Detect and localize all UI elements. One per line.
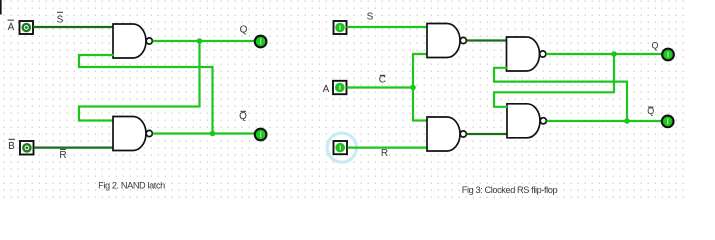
cropped element at top-left edge <box>0 0 2 15</box>
label Q-bar (Fig 3) <box>647 106 654 116</box>
junction node on Q-bar wire <box>210 131 216 137</box>
input switch R (value 1) <box>334 141 348 154</box>
wire feedback Q-bar to U1 input <box>79 55 213 134</box>
junction node on Q-bar wire (Fig 3) <box>624 118 630 124</box>
label Q-bar (Fig 2) <box>239 111 247 122</box>
NAND gate U4 (bottom-left, Fig 3) <box>427 117 466 151</box>
wire C branch down to U4 <box>413 88 428 121</box>
wire S (logic 1) <box>347 26 428 28</box>
output indicator Q-bar (lit, 1) <box>255 129 267 141</box>
svg-text:A: A <box>8 22 15 33</box>
svg-text:S: S <box>367 12 374 23</box>
wire U1 output to Q (logic 1) <box>153 40 254 42</box>
wire C (logic 1) <box>347 86 414 88</box>
output indicator Q (lit, Fig 3) <box>662 49 674 61</box>
input switch S (value 1, Fig 3) <box>334 21 347 34</box>
wire feedback Q to U2 input <box>79 41 200 121</box>
wire U3 out to U5 (logic 0) <box>467 39 507 41</box>
NAND gate U3 (top-left, Fig 3) <box>427 24 466 58</box>
svg-text:B: B <box>8 141 15 152</box>
NAND gate U1 (top, Fig 2) <box>113 24 152 58</box>
output indicator Q-bar (lit, Fig 3) <box>662 116 674 128</box>
wire feedback Q to U6 input <box>494 54 614 107</box>
input switch B (value 0) <box>20 141 34 155</box>
svg-text:Q: Q <box>240 25 248 36</box>
NAND gate U5 (top-right, Fig 3) <box>507 37 546 71</box>
label A-bar (input A, Fig 2) <box>8 20 15 33</box>
junction node on C wire <box>410 85 416 91</box>
NAND gate U2 (bottom, Fig 2) <box>113 117 152 151</box>
junction node on Q wire (Fig 3) <box>611 51 617 57</box>
junction node on Q wire <box>197 38 203 44</box>
svg-text:Fig 3: Clocked RS flip-flop: Fig 3: Clocked RS flip-flop <box>462 185 558 195</box>
wire S-bar (logic 0) <box>33 26 114 28</box>
net C-bar label <box>379 75 386 86</box>
wire R-bar (logic 0) <box>34 147 114 149</box>
wire feedback Q-bar to U5 input <box>494 68 627 121</box>
wire R (logic 1) <box>348 147 428 149</box>
wire U6 output to Q-bar (logic 1) <box>547 120 662 122</box>
svg-text:Q: Q <box>651 41 658 51</box>
wire U5 output to Q (logic 1) <box>546 53 662 55</box>
selection halo around R switch <box>327 133 356 162</box>
input switch A/C (value 1) <box>333 81 347 94</box>
svg-text:R: R <box>381 148 388 159</box>
svg-text:Fig 2. NAND latch: Fig 2. NAND latch <box>98 181 165 191</box>
svg-text:R: R <box>59 150 66 161</box>
output indicator Q (lit, 1) <box>255 36 267 48</box>
svg-text:Q: Q <box>239 111 247 122</box>
net R-bar label <box>59 149 66 161</box>
label B-bar (input B, Fig 2) <box>8 139 15 152</box>
input switch A (value 0) <box>20 21 34 34</box>
net S-bar label <box>57 12 64 26</box>
NAND gate U6 (bottom-right, Fig 3) <box>507 104 546 138</box>
svg-text:S: S <box>57 15 64 26</box>
wire C branch up to U3 <box>413 54 428 88</box>
svg-text:A: A <box>323 84 330 95</box>
wire U2 output to Q-bar (logic 1) <box>153 132 254 134</box>
svg-text:C: C <box>379 75 386 86</box>
wire U4 out to U6 (logic 0) <box>467 133 508 135</box>
